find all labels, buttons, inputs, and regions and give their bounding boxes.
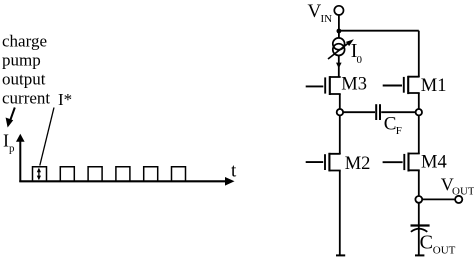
transistor M2 (306, 153, 340, 172)
node VOUT (415, 196, 422, 203)
label M1 (421, 76, 447, 96)
svg-text:p: p (9, 143, 15, 155)
y axis Ip (16, 134, 25, 182)
svg-text:C: C (384, 114, 397, 135)
wire right column down to M1 drain (418, 31, 420, 77)
svg-text:current: current (2, 89, 50, 108)
capacitor CF (376, 104, 380, 120)
label VIN (308, 1, 333, 25)
annotation arrow to Ip axis (6, 108, 15, 128)
transistor M3 (306, 76, 340, 95)
ground bar COUT (415, 254, 424, 256)
label COUT (420, 232, 456, 257)
svg-text:V: V (308, 1, 322, 22)
label CF (384, 114, 402, 137)
svg-text:pump: pump (2, 51, 41, 70)
junction dot (337, 29, 342, 34)
label M2 (345, 154, 371, 174)
label I0 (351, 40, 363, 66)
terminal VOUT (455, 196, 462, 203)
axis label Ip (3, 131, 15, 155)
wire M3 source to node (339, 94, 341, 109)
wire node to VOUT terminal (422, 198, 455, 200)
label M3 (341, 75, 367, 95)
current source I0 (333, 38, 345, 56)
svg-text:charge: charge (2, 32, 47, 51)
x axis t (19, 177, 234, 186)
svg-text:M3: M3 (341, 75, 367, 95)
label M4 (421, 153, 447, 173)
svg-text:C: C (420, 232, 433, 254)
callout line from I* to first pulse (40, 108, 54, 166)
svg-text:OUT: OUT (433, 245, 456, 257)
wire left node to M2 drain (339, 115, 341, 154)
wire current source to M3 drain (338, 55, 340, 78)
svg-text:M2: M2 (345, 154, 371, 174)
wire right node to M4 drain (418, 115, 420, 154)
wire CF left (343, 111, 375, 113)
wire M4 source to node (418, 170, 420, 196)
wire CF right (381, 111, 416, 113)
axis label t (231, 161, 237, 182)
transistor M4 (383, 153, 419, 172)
wire top branch to M1 (339, 30, 419, 32)
pulse train waveform (33, 167, 186, 182)
annotation text "charge pump output current" (2, 32, 50, 108)
svg-text:M4: M4 (421, 153, 447, 173)
svg-text:OUT: OUT (452, 186, 474, 198)
current direction arrow (336, 63, 342, 69)
ground bar M2 (336, 254, 345, 256)
label VOUT (441, 175, 474, 198)
capacitor COUT curved plate (411, 229, 427, 232)
svg-text:F: F (396, 125, 402, 137)
svg-text:IN: IN (321, 13, 333, 25)
svg-text:I*: I* (58, 90, 72, 109)
svg-text:t: t (231, 161, 237, 182)
node left of CF (337, 109, 343, 115)
wire node down to COUT (418, 203, 420, 255)
svg-text:0: 0 (357, 54, 363, 66)
svg-text:output: output (2, 70, 46, 89)
transistor M1 (383, 76, 419, 94)
svg-text:M1: M1 (421, 76, 447, 96)
amplitude double arrow I* (37, 168, 41, 181)
capacitor COUT top plate (411, 224, 430, 226)
terminal VIN (334, 6, 343, 15)
wire M1 source to node (418, 93, 420, 109)
wire VIN down (338, 15, 340, 39)
node right of CF (416, 109, 422, 115)
label I* (58, 90, 72, 109)
current source adjustment arrow (328, 39, 354, 59)
wire M2 source down (339, 171, 341, 256)
